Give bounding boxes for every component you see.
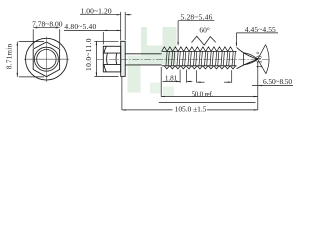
60 degree thread angle annotation xyxy=(192,26,216,45)
dimension 7.78~8.00 (across flats) xyxy=(32,19,63,48)
thread (zigzag crests, root lines, flank pairs) xyxy=(162,47,237,69)
dimension 105.0 +-1.5 (overall length) xyxy=(122,62,258,114)
dimension 8.71min (across corners) xyxy=(5,42,44,77)
dimension 10.0~11.0 (flange dia) xyxy=(84,38,119,76)
dimension 4.45~4.55 (drill point dia) xyxy=(236,25,278,47)
svg-text:7.78~8.00: 7.78~8.00 xyxy=(32,19,63,28)
svg-text:8.71min: 8.71min xyxy=(5,43,13,69)
svg-text:60°: 60° xyxy=(199,26,210,35)
side view washer flange xyxy=(121,41,126,76)
svg-text:105.0 ±1.5: 105.0 ±1.5 xyxy=(175,105,207,114)
dimension 1.00~1.20 (flange thickness) xyxy=(80,6,131,40)
svg-text:50.0 ref.: 50.0 ref. xyxy=(192,90,214,98)
svg-text:6.50~8.50: 6.50~8.50 xyxy=(263,77,292,86)
110 degree point angle annotation xyxy=(255,45,269,74)
front view center lines xyxy=(24,37,69,83)
hex head front view: outer flange circle xyxy=(26,38,68,80)
dimension 5.28~5.46 (thread dia) xyxy=(177,12,214,46)
centerline of screw axis xyxy=(97,58,269,60)
watermark logo (light green) xyxy=(121,27,177,97)
hex head front view: hexagon xyxy=(33,42,59,77)
side view hex head xyxy=(103,46,120,72)
svg-text:10.0~11.0: 10.0~11.0 xyxy=(84,38,93,71)
dimension 1.81 (pitch) xyxy=(163,70,193,83)
dimension 50.0 ref (thread length) xyxy=(159,67,258,102)
hex head front view: inner circles xyxy=(34,47,58,71)
dimension 4.80~5.40 (head height) xyxy=(64,22,121,45)
svg-text:1.00~1.20: 1.00~1.20 xyxy=(80,6,111,15)
drill point cone xyxy=(237,47,258,68)
svg-text:5.28~5.46: 5.28~5.46 xyxy=(180,12,212,21)
dimension 6.50~8.50 (drill point length) xyxy=(252,77,293,86)
svg-text:4.80~5.40: 4.80~5.40 xyxy=(64,22,96,31)
drill point flute xyxy=(244,53,258,65)
shank xyxy=(125,54,161,65)
